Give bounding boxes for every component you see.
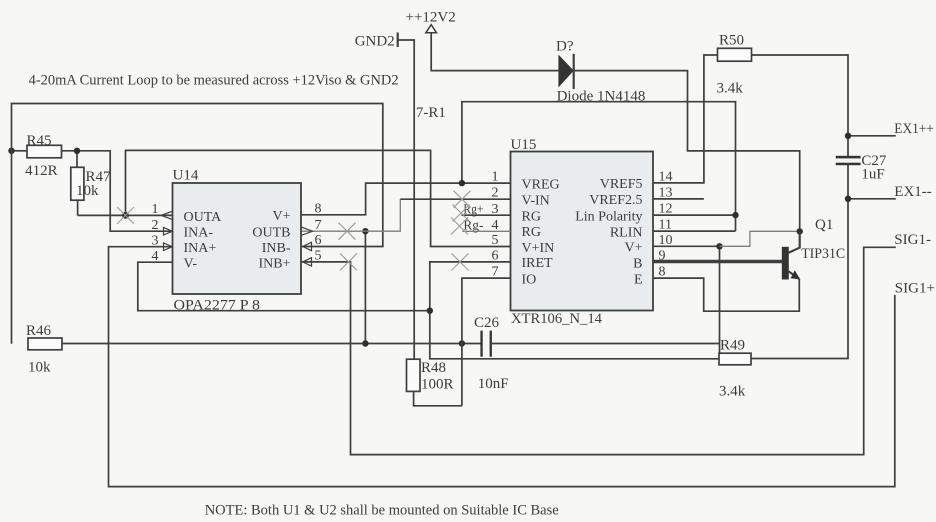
wire diode cathode to Q1 collector [574,71,800,232]
svg-text:V-: V- [184,257,198,272]
resistor R47 [71,167,111,200]
svg-text:TIP31C: TIP31C [801,246,845,262]
svg-text:2: 2 [152,218,159,233]
svg-text:13: 13 [659,185,673,200]
svg-text:U14: U14 [173,168,199,184]
svg-text:11: 11 [659,218,672,233]
junction V- IRET [427,308,433,314]
svg-text:R45: R45 [27,133,52,149]
pin arrow INA- input [164,227,173,235]
junction VREG [459,180,465,186]
svg-text:XTR106_N_14: XTR106_N_14 [511,311,602,327]
wire EX1++ stub [848,135,896,137]
wire U15 pin8 E to Q1 emitter [653,278,799,311]
wire R48 bottom to IO vertical [414,391,462,405]
IC U15 XTR106 [511,137,654,327]
svg-text:6: 6 [492,248,499,263]
no-ERC marker on V-IN line [454,191,471,208]
junction EX1++ [845,133,851,139]
wire U15 pin9 B thick base [653,260,782,263]
svg-text:100R: 100R [421,376,454,392]
wire EX1-- stub [848,198,896,200]
svg-text:4-20mA Current Loop to be meas: 4-20mA Current Loop to be measured acros… [29,73,399,89]
wire OUTA up over to U15 pin5 V+IN [126,150,511,246]
svg-text:8: 8 [315,202,322,217]
svg-text:8: 8 [659,265,666,280]
diode D1 [556,38,645,104]
wire U15 pin 12 [653,214,736,216]
svg-text:9: 9 [659,249,666,264]
wire Rg- pin4 stub [462,230,510,232]
svg-text:7-R1: 7-R1 [416,105,446,121]
wire U14 V- to IRET and R49 left [138,262,430,311]
svg-text:12: 12 [659,202,673,217]
svg-text:10nF: 10nF [478,376,509,392]
junction pin10 [716,243,722,249]
svg-text:U15: U15 [511,137,537,153]
svg-text:B: B [633,257,642,272]
svg-text:10k: 10k [28,359,51,375]
svg-text:EX1++: EX1++ [894,121,934,137]
wire R46 right feedback line to C26 [62,343,481,345]
wire U14 INA+ to SIG1+ [109,247,895,487]
junction OUTB [362,228,368,234]
svg-text:3: 3 [152,233,159,248]
svg-text:412R: 412R [25,163,58,179]
wire R45 left [12,150,28,152]
capacitor C27 [836,153,887,183]
wire V-IN segment [400,198,510,200]
wire R45 right to INA- [62,151,173,231]
svg-text:10k: 10k [76,183,99,199]
wire OUTA pin1 line [78,214,173,216]
svg-text:INB+: INB+ [258,256,290,271]
wire left rail top loop to INB- [12,104,383,344]
svg-text:2: 2 [492,186,499,201]
wire OUTB elbow gray [301,199,400,231]
svg-text:4: 4 [492,218,499,233]
svg-text:V+IN: V+IN [522,241,555,256]
svg-text:OUTB: OUTB [252,226,290,241]
junction C26-R48-IO [459,340,465,346]
svg-text:OUTA: OUTA [184,210,223,225]
junction R45-R47 [74,148,80,154]
junction left rail R45 [8,148,14,154]
svg-text:NOTE: Both U1 & U2 shall be mo: NOTE: Both U1 & U2 shall be mounted on S… [205,503,559,519]
node GND2 port [355,33,398,50]
no-ERC marker on INB+ corner [340,253,357,270]
no-ERC marker on Rg- end [451,218,468,235]
svg-text:RLIN: RLIN [610,225,643,240]
svg-text:EX1--: EX1-- [894,184,932,200]
no-ERC marker on OUTA junction [117,207,134,224]
no-ERC marker on Rg+ end [453,205,470,222]
wire pin10 elbow to Q1 collector [720,231,800,246]
svg-text:D?: D? [556,38,574,54]
svg-text:VREF5: VREF5 [600,177,643,192]
no-ERC marker on IRET line [452,253,469,270]
power symbol ++12V2 [406,9,456,33]
svg-text:RG: RG [522,209,541,224]
pin arrow INA+ input [164,243,173,251]
resistor R48 [407,359,454,392]
svg-text:1: 1 [152,202,159,217]
junction OUTA [122,212,129,219]
svg-text:++12V2: ++12V2 [406,9,456,25]
svg-text:E: E [634,273,643,288]
svg-text:1: 1 [492,170,499,185]
svg-text:7: 7 [492,265,499,280]
resistor R46 [26,323,62,376]
svg-text:10: 10 [659,233,673,248]
svg-text:R49: R49 [720,338,745,354]
svg-text:1uF: 1uF [861,166,884,182]
svg-text:RG: RG [522,225,541,240]
wire Rg+ pin3 stub [461,214,510,216]
svg-text:IO: IO [522,272,537,287]
svg-text:3.4k: 3.4k [719,383,746,399]
wire U15 pin 13 stub [653,198,704,200]
svg-text:SIG1+: SIG1+ [895,281,935,297]
junction OUTB feedback [362,340,368,346]
wire GND2 down to R48 top [398,40,415,359]
resistor R45 [25,133,61,179]
svg-text:5: 5 [492,233,499,248]
svg-text:INB-: INB- [262,241,291,256]
wire VREG up over to Lin Polarity / RLIN [462,102,736,231]
wire VREG net: U14 V+ to U15 pin1 VREG [301,183,511,215]
wire R50 left to U15 pin 14 [653,55,718,183]
svg-text:R50: R50 [719,33,744,49]
svg-text:7: 7 [315,218,322,233]
junction pin12 [732,212,738,218]
capacitor C26 [474,315,509,392]
svg-text:VREF2.5: VREF2.5 [589,193,642,208]
svg-text:3.4k: 3.4k [717,80,744,96]
wire R47 bottom [77,200,79,215]
wire U14 INB+ to SIG1- [301,247,896,454]
pin arrow INB- input [303,242,312,250]
svg-text:C26: C26 [474,315,500,331]
svg-text:OPA2277 P 8: OPA2277 P 8 [174,297,261,313]
svg-text:R48: R48 [421,360,446,376]
svg-text:R46: R46 [26,323,52,339]
wire U15 pin7 IO down [462,278,511,406]
svg-text:INA-: INA- [184,226,214,241]
wire U15 pin 11 [653,230,736,232]
svg-text:5: 5 [315,249,322,264]
svg-text:Q1: Q1 [815,217,833,233]
svg-text:GND2: GND2 [355,33,395,49]
wire R47 top [76,151,78,168]
no-ERC marker on OUTB line [339,223,356,240]
svg-text:V+: V+ [272,209,290,224]
svg-text:SIG1-: SIG1- [894,232,931,248]
pin arrow INB+ input [303,258,312,266]
pin arrow OUTA output [161,211,173,219]
junction EX1-- [845,196,851,202]
svg-text:INA+: INA+ [184,241,217,256]
junction Q1 collector [797,228,803,234]
svg-text:14: 14 [659,169,673,184]
wire U15 pin6 IRET down to R49 left [430,262,719,359]
resistor R49 [719,338,751,400]
resistor R50 [717,33,752,97]
wire C26 right to R49 left vertical [492,343,720,345]
wire U15 pin10 V+ down to R49 [653,246,720,353]
transistor Q1 [782,217,845,280]
svg-text:Lin Polarity: Lin Polarity [575,209,642,224]
svg-text:6: 6 [315,233,322,248]
wire R50 right to EX1 rail down to R49 right [751,55,848,359]
svg-text:V-IN: V-IN [522,193,550,208]
pin arrow OUTB output [301,227,313,236]
wire OUTB down to feedback line [364,231,366,343]
svg-text:4: 4 [152,249,159,264]
svg-text:IRET: IRET [522,256,554,271]
svg-text:V+: V+ [624,241,642,256]
op-amp U14 [173,168,302,314]
svg-text:VREG: VREG [522,178,560,193]
wire ++12V2 drop to diode anode [431,33,558,71]
